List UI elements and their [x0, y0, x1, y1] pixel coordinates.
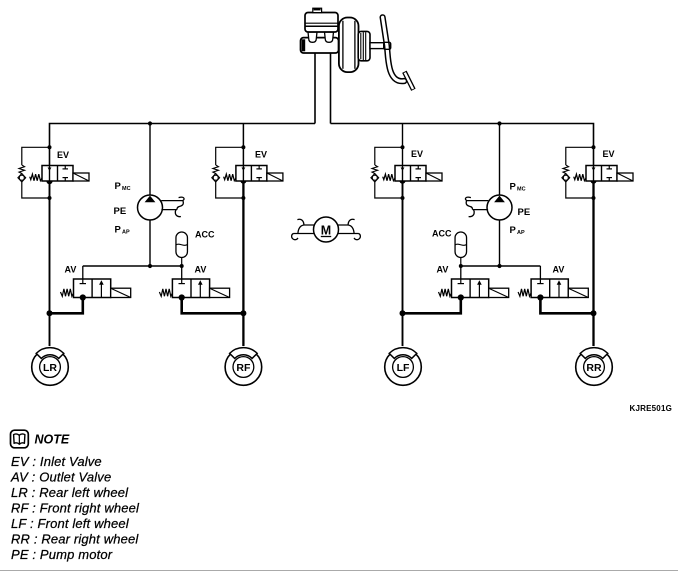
svg-text:MC: MC: [122, 186, 131, 192]
inlet valve EV4: [574, 166, 633, 182]
wire: AV2 return to RF line: [182, 298, 244, 314]
junction: pump PE2 to return manifold: [497, 264, 501, 268]
check valve CV2 bypass around EV2: [212, 145, 246, 200]
wheel RF: [225, 348, 262, 386]
inlet valve EV1: [30, 166, 89, 182]
junction: right bus to pump PE2: [497, 121, 501, 125]
wheel LF: [385, 348, 422, 386]
wheel RR: [576, 348, 613, 386]
wire: right return manifold: [461, 265, 541, 267]
svg-text:RF : Front right wheel: RF : Front right wheel: [11, 501, 140, 516]
junction: EV2 outlet: [240, 177, 246, 183]
pump PE1: [138, 195, 163, 220]
svg-text:AP: AP: [517, 230, 525, 236]
wire: AV3 return to LF line: [403, 298, 461, 314]
junction: EV4 outlet: [590, 177, 596, 183]
svg-text:ACC: ACC: [432, 229, 452, 239]
svg-text:EV: EV: [57, 150, 69, 160]
wire: pump PE2 suction/discharge line: [499, 124, 501, 267]
inlet valve EV2: [224, 166, 283, 182]
svg-text:MC: MC: [517, 187, 526, 193]
svg-text:AV: AV: [437, 265, 449, 275]
svg-text:LR: LR: [43, 362, 57, 374]
accumulator ACC1: [176, 232, 188, 268]
fluid reservoir: [305, 13, 338, 33]
svg-text:PE: PE: [114, 206, 127, 217]
svg-text:EV: EV: [411, 149, 423, 159]
svg-text:PE: PE: [518, 207, 531, 218]
junction: EV3 outlet: [399, 177, 405, 183]
junction: pump PE1 to return manifold: [148, 264, 152, 268]
svg-text:AP: AP: [122, 230, 130, 236]
svg-text:AV: AV: [195, 265, 207, 275]
motor M: [314, 217, 339, 242]
accumulator ACC2: [455, 232, 467, 268]
inlet valve EV3: [383, 166, 442, 182]
outlet valve AV3: [439, 266, 509, 301]
pedal pad: [404, 72, 413, 90]
wire: RF wheel line below EV2: [242, 181, 244, 347]
junction: left bus to pump PE1: [148, 121, 152, 125]
pump PE2 drive coupling (mirrored): [465, 197, 488, 217]
svg-text:EV: EV: [255, 150, 267, 160]
bottom rule: [0, 570, 678, 572]
reservoir cap: [313, 8, 322, 13]
svg-text:P: P: [115, 225, 122, 236]
check valve CV1 bypass around EV1: [18, 145, 52, 200]
wire: EV2 drop from bus: [242, 124, 244, 167]
reservoir ports: [308, 32, 317, 42]
outlet valve AV2: [159, 266, 229, 301]
master cylinder body: [301, 38, 339, 53]
svg-text:AV: AV: [553, 265, 565, 275]
junction: RF line return tee: [240, 310, 246, 316]
wire: LF wheel line below EV3: [402, 181, 404, 347]
outlet valve AV4: [518, 266, 588, 301]
wire: left supply bus: [50, 124, 316, 167]
outlet valve AV1: [61, 266, 131, 301]
svg-text:EV: EV: [603, 149, 615, 159]
wire: LR wheel line below EV1: [49, 181, 51, 346]
svg-text:P: P: [510, 225, 517, 236]
svg-text:AV : Outlet Valve: AV : Outlet Valve: [10, 470, 111, 485]
svg-text:KJRE501G: KJRE501G: [630, 404, 673, 413]
svg-text:RR: RR: [586, 362, 602, 374]
motor right coupling fork: [338, 219, 360, 239]
check valve CV4 bypass around EV4: [562, 145, 596, 200]
svg-text:EV : Inlet Valve: EV : Inlet Valve: [11, 454, 102, 469]
brake booster: [339, 18, 370, 73]
svg-text:P: P: [510, 182, 517, 193]
note icon: [11, 430, 29, 448]
check valve CV3 bypass around EV3: [371, 145, 405, 200]
wire: right master-cylinder pipe: [330, 53, 332, 124]
svg-text:NOTE: NOTE: [35, 433, 70, 447]
wheel LR: [32, 348, 69, 386]
pedal clevis joint: [384, 42, 391, 49]
wire: left return manifold: [83, 265, 182, 267]
svg-text:LF : Front left wheel: LF : Front left wheel: [11, 516, 130, 531]
wire: EV3 drop from bus: [402, 124, 404, 167]
svg-text:ACC: ACC: [195, 230, 215, 240]
wire: right supply bus: [331, 124, 594, 167]
svg-text:LR : Rear left wheel: LR : Rear left wheel: [11, 485, 129, 500]
brake pedal arm: [383, 17, 405, 81]
svg-text:LF: LF: [397, 362, 410, 374]
wire: pump PE1 suction/discharge line: [149, 124, 151, 267]
junction: RR line return tee: [591, 310, 597, 316]
svg-text:PE : Pump motor: PE : Pump motor: [11, 547, 113, 562]
booster push rod: [370, 43, 384, 49]
svg-text:M: M: [321, 223, 331, 237]
pump PE2: [487, 195, 512, 220]
junction: EV1 outlet: [46, 178, 52, 184]
wire: AV1 return to LR line: [50, 298, 83, 314]
wire: left master-cylinder pipe: [314, 53, 316, 124]
svg-text:RF: RF: [236, 362, 251, 374]
pump PE1 drive coupling: [161, 197, 184, 217]
svg-text:AV: AV: [65, 265, 77, 275]
motor left coupling fork: [292, 219, 314, 239]
wire: RR wheel line below EV4: [592, 181, 594, 347]
wire: AV4 return to RR line: [540, 298, 593, 314]
svg-text:P: P: [115, 181, 122, 192]
svg-text:RR : Rear right wheel: RR : Rear right wheel: [11, 532, 139, 547]
junction: LF line return tee: [400, 310, 406, 316]
junction: LR line return tee: [47, 310, 53, 316]
